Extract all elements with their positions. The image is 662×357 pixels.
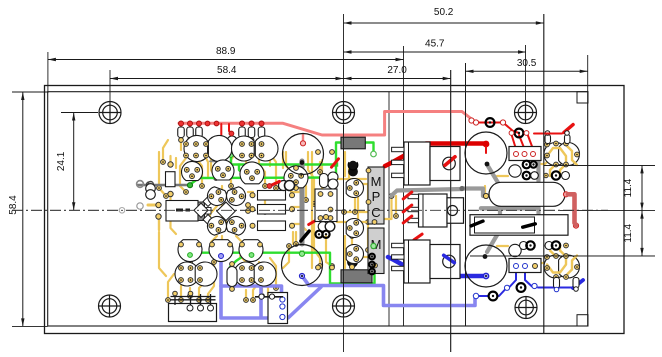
input coupling cap C1 [146,184,156,200]
blue wedge right [573,280,583,288]
terminal block upper-right [509,147,541,161]
dimension 45.7 [344,39,527,54]
mounting hole top-left [99,102,121,124]
input resistor R1 [166,162,176,197]
section line x=403.5 [403,46,405,326]
resistor capsule mid [320,174,329,188]
red feed drops [205,121,231,174]
dimension 30.5 [466,58,588,73]
PCB board outline [48,92,588,326]
blue vertical x261 [259,278,263,317]
extension line y=92 left [12,91,48,93]
svg-text:24.1: 24.1 [56,151,67,171]
output transistor TO3 upper-left [283,134,324,175]
svg-text:11.4: 11.4 [623,178,634,197]
capsules upper-right [545,131,570,144]
red wedge mark spare [564,125,573,133]
transistor Q9 [207,187,226,206]
dimension 50.2 [344,7,544,25]
dimension 11.4 lower [623,211,644,256]
power transistor TO220 lower [392,240,460,283]
electrolytic cap upper (pill) [483,182,568,206]
transistor Q20 mid [346,179,363,198]
differential pair upper-right [544,141,580,176]
transistor Q10 [227,187,246,206]
transistor Q6 [212,160,234,180]
output transistor TO3 lower-right [465,245,507,287]
horizontal centerline (dash-dot) [12,209,608,211]
transistor Q7 [240,162,264,184]
trimmer VR1 body [148,197,213,230]
diode bridge diamond large [217,202,235,220]
extension line y=165.4 right [544,164,655,166]
svg-text:C: C [371,205,380,220]
IC strip MPC lower [368,220,384,275]
gray band lower cap [476,208,541,228]
gray center vertical (output rail) [300,161,305,244]
svg-text:27.0: 27.0 [387,65,407,76]
bead rows right lower [520,241,569,249]
IC strip MPC upper [366,151,384,224]
blue long rail bottom [302,276,475,306]
extension overlay y=255.9 [470,255,655,257]
relay K1 mid [315,189,337,222]
mounting hole top-middle [333,102,355,124]
transistor pad grid lower [179,266,264,283]
jumper pen marks [301,221,536,241]
extension line y=255.9 right [470,255,655,257]
mounting hole bottom-left [99,295,121,317]
svg-text:58.4: 58.4 [8,195,19,215]
power resistor box lower (gray) [341,270,372,283]
power bus V+ (pink) [179,112,474,143]
beads mid [315,231,329,238]
section line overlay x=543.8 [543,14,545,334]
red link caps [568,194,576,225]
transistor Q14 [209,240,233,262]
electrolytic cap lower (rect) [470,215,579,236]
centerline overlay [12,209,608,211]
black cap lower [348,248,358,267]
dimension 24.1 [56,113,75,211]
feedback resistor stack [250,191,295,231]
gray trace block to band [536,156,540,226]
terminal connector J2 [255,293,288,324]
pads mid column [316,150,355,270]
transistor Q8 [284,166,308,188]
extension line x=587.7 [587,55,589,92]
transistor Q12 [227,217,246,236]
differential pair lower-right [544,245,580,280]
extension line y=210.6 right [560,210,655,212]
small pads left of stack [246,166,299,214]
extension line 24.1 tick [61,112,98,114]
speaker rail periwinkle [221,256,321,318]
transistor Q21 mid [346,219,363,238]
transistor pair Q1 Q2 [184,135,232,161]
section line overlay x=450.7 [450,70,452,352]
svg-text:88.9: 88.9 [216,46,236,57]
beads bottom row [473,283,537,300]
blue distribution wiring lower-right [478,266,571,296]
board notch top-right [577,92,588,103]
dimension 27.0 [344,65,451,80]
red feeder right [534,133,562,135]
ground bus gray horizontal [391,186,483,196]
transistor pair Q18 Q19 [234,262,276,286]
svg-text:P: P [372,189,381,204]
mounting hole bottom-middle [333,295,355,317]
blue wedge tab lower [444,255,455,262]
trace green lower rail [189,251,375,284]
wire mark W2 [267,181,279,188]
cap pair mid [318,222,335,232]
dimension 58.4 left [8,92,25,326]
terminal connector J1 [169,291,217,321]
extension line x=110 (hole) [109,70,111,101]
power trace to output transistor (thick red) [385,141,489,166]
bead row upper-right [469,118,529,138]
red wedge mid-left [242,159,422,276]
diode D1 [227,131,237,157]
blue rail via connector [221,286,282,296]
gray input trace [138,182,193,188]
svg-text:M: M [371,174,382,189]
svg-text:50.2: 50.2 [434,7,454,18]
section line overlay x=465.5 [465,63,467,326]
mounting hole bottom-right [515,297,537,319]
svg-text:45.7: 45.7 [425,39,445,50]
section line overlay x=343.5b [343,125,345,296]
power trace to output transistor (thick blue) [388,257,489,279]
svg-text:11.4: 11.4 [623,223,634,242]
cap pair C4 [279,181,295,191]
transistor Q11 [207,217,226,236]
red distribution wiring upper-right [476,123,533,154]
section line x=343.5 [343,14,345,352]
transistor Q5 [182,161,203,180]
section line x=465.5 [465,63,467,326]
extension line y=326.4 left [12,325,48,327]
transistor Q22 mid [346,245,363,264]
red wedge marks driver pins [403,192,412,223]
board notch bottom-right [577,315,588,326]
output transistor TO3 upper-right [465,132,507,174]
power resistor box upper (gray) [341,137,365,149]
section line x=450.7 [450,70,452,352]
cap small mid [328,172,338,189]
power transistor TO220 upper [392,142,460,185]
transistor pad grid upper [184,142,264,158]
output transistor TO3 lower-left [282,245,323,286]
red wedge tab upper [445,157,455,165]
transistor pair Q16 Q17 [175,262,217,286]
section line x=389 [388,92,390,326]
section line x=543.8 [543,14,545,334]
dimension 88.9 [48,46,404,61]
beads right column lower [509,244,521,256]
extension line x=525.5 (hole) [525,45,527,101]
terminal block lower-right [509,259,541,273]
svg-text:58.4: 58.4 [217,65,237,76]
input ground pad [137,181,154,188]
dimension 11.4 upper [623,165,644,210]
dimension 58.4 top [110,65,344,80]
svg-text:30.5: 30.5 [517,58,537,69]
transistor Q15 [239,240,263,262]
chassis outer outline [45,86,625,334]
capsules lower-right [554,278,580,292]
driver transistor TO126 middle [408,194,464,227]
gray trace cap column [487,165,500,253]
black cap upper [348,160,358,176]
mounting hole top-right [515,102,537,124]
transistor pair Q3 Q4 [231,136,278,161]
diode bridge diamond small [194,203,208,217]
input pad open [119,203,143,213]
gray stub upper-left [210,160,227,162]
resistor capsule lower [227,262,237,292]
trace green upper rail [190,143,374,185]
extension line x=47.9 [47,52,49,93]
signal traces (yellow network) [157,138,399,302]
beads right column upper [509,165,521,177]
standing resistors top row [178,121,265,142]
bead rows right upper [523,161,570,180]
signal traces right section (yellow) [485,162,547,265]
transistor Q13 [178,240,202,262]
extension overlay y=165.4 [544,164,655,166]
